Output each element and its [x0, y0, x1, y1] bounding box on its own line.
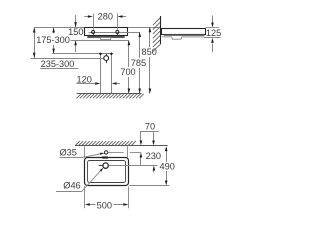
- svg-text:700: 700: [120, 67, 135, 77]
- svg-text:230: 230: [146, 151, 161, 161]
- svg-text:490: 490: [160, 162, 175, 172]
- svg-text:Ø35: Ø35: [60, 148, 77, 158]
- svg-text:150: 150: [68, 27, 83, 37]
- svg-text:235-300: 235-300: [41, 59, 75, 69]
- svg-text:Ø46: Ø46: [63, 180, 80, 190]
- svg-text:850: 850: [142, 47, 157, 57]
- svg-text:125: 125: [206, 28, 221, 38]
- svg-text:70: 70: [145, 122, 155, 132]
- svg-text:785: 785: [131, 58, 146, 68]
- svg-text:280: 280: [98, 11, 113, 21]
- svg-text:175-300: 175-300: [36, 35, 70, 45]
- svg-text:120: 120: [77, 74, 92, 84]
- svg-text:500: 500: [97, 200, 112, 210]
